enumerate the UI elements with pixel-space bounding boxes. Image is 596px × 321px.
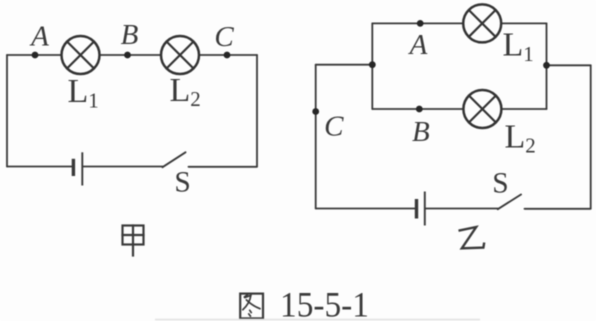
wire: circuit-yi inner right vertical — [546, 23, 548, 109]
wire: circuit-jia top-right segment — [199, 54, 257, 56]
wire: circuit-jia right vertical — [256, 55, 258, 167]
svg-text:S: S — [492, 168, 508, 200]
wire: circuit-jia battery to switch — [83, 166, 162, 168]
label yi (Chinese character 乙) — [459, 227, 485, 248]
wire: circuit-yi left connector — [316, 64, 373, 66]
wire: circuit-yi outer left vertical — [315, 65, 317, 209]
wire: circuit-yi top branch right of L1 — [501, 22, 546, 24]
lamp L2 (circuit jia) — [161, 36, 199, 74]
wire: circuit-jia bottom-left to battery — [7, 166, 72, 168]
battery B1 (circuit jia) — [73, 152, 82, 185]
wire: circuit-jia top segment between L1 and L2 — [100, 54, 162, 56]
switch S (circuit jia) lever — [163, 152, 186, 167]
svg-text:15-5-1: 15-5-1 — [280, 285, 369, 321]
junction: circuit-yi right branch junction — [543, 62, 550, 69]
caption character 图 — [240, 294, 263, 319]
lamp L1 (circuit yi) — [463, 4, 501, 42]
switch S (circuit yi) lever — [498, 195, 521, 210]
svg-text:C: C — [214, 21, 234, 53]
wire: circuit-yi outer right vertical — [590, 65, 592, 208]
node A (circuit yi) — [417, 20, 424, 27]
battery B2 (circuit yi) — [417, 192, 425, 226]
svg-text:B: B — [412, 116, 430, 148]
svg-text:A: A — [29, 21, 49, 53]
wire: circuit-yi bottom branch left of L2 — [372, 108, 463, 110]
wire: circuit-yi right connector — [547, 64, 591, 66]
node C (circuit jia) — [224, 52, 231, 59]
wire: circuit-yi battery to switch — [426, 208, 498, 210]
faint scan line under caption — [155, 319, 480, 321]
svg-text:A: A — [408, 29, 428, 61]
node C (circuit yi) — [312, 108, 319, 115]
wire: circuit-yi inner left vertical — [371, 23, 373, 109]
junction: circuit-yi left branch junction — [369, 61, 376, 68]
svg-text:S: S — [174, 167, 190, 199]
node B (circuit jia) — [124, 52, 131, 59]
lamp L1 (circuit jia) — [62, 36, 100, 74]
wire: circuit-yi bottom branch right of L2 — [501, 108, 546, 110]
wire: circuit-yi bottom-left to battery — [316, 208, 415, 210]
wire: circuit-jia top-left segment — [7, 54, 62, 56]
label jia (Chinese character 甲) — [123, 226, 144, 256]
wire: circuit-jia left vertical — [6, 55, 8, 167]
svg-text:B: B — [121, 19, 139, 51]
svg-text:C: C — [324, 111, 344, 143]
wire: circuit-yi top branch left of L1 — [372, 22, 463, 24]
wire: circuit-jia switch to bottom-right — [189, 166, 258, 168]
wire: circuit-yi switch to bottom-right — [525, 208, 591, 210]
node A (circuit jia) — [32, 52, 39, 59]
node B (circuit yi) — [416, 106, 423, 113]
lamp L2 (circuit yi) — [463, 90, 501, 128]
